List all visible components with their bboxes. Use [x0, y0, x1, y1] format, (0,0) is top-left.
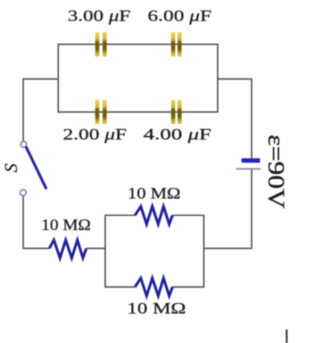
switch S blade: [26, 147, 46, 188]
svg-text:2.00 μF: 2.00 μF: [63, 127, 127, 144]
wire resistor R1 to parallel box: [86, 247, 105, 249]
resistor R1 10 Mohm zigzag: [49, 240, 86, 258]
svg-text:10 MΩ: 10 MΩ: [41, 217, 91, 234]
svg-text:6.00 μF: 6.00 μF: [148, 8, 212, 25]
capacitor C3 2.00uF plates: [95, 100, 107, 124]
capacitor C4 4.00uF plates: [171, 100, 182, 124]
switch S open-circle bottom: [20, 190, 26, 196]
battery bottom plate (thin): [236, 168, 261, 170]
svg-text:S: S: [1, 164, 21, 173]
stray cursor mark bottom right: [286, 330, 288, 343]
svg-text:10 MΩ: 10 MΩ: [127, 301, 186, 318]
svg-text:4.00 μF: 4.00 μF: [143, 127, 211, 144]
capacitor C2 6.00uF plates: [171, 32, 182, 56]
resistor R3 10 Mohm zigzag bottom parallel: [135, 278, 173, 296]
resistor R2 10 Mohm zigzag top parallel: [135, 206, 173, 224]
svg-text:3.00 μF: 3.00 μF: [68, 8, 131, 25]
wire switch to bottom rail: [23, 196, 49, 249]
svg-text:10 MΩ: 10 MΩ: [128, 186, 181, 203]
wire right tee to battery top: [218, 79, 252, 158]
capacitor C1 3.00uF plates: [95, 32, 107, 56]
svg-text:ε=90V: ε=90V: [262, 135, 288, 209]
wire left tee to switch: [23, 79, 58, 141]
wire parallel-resistor box: [105, 215, 204, 287]
wire capacitor-network box: [58, 44, 218, 112]
battery top plate (thick): [242, 158, 261, 162]
switch S open-circle top: [21, 141, 27, 147]
wire parallel box to battery: [204, 169, 252, 248]
